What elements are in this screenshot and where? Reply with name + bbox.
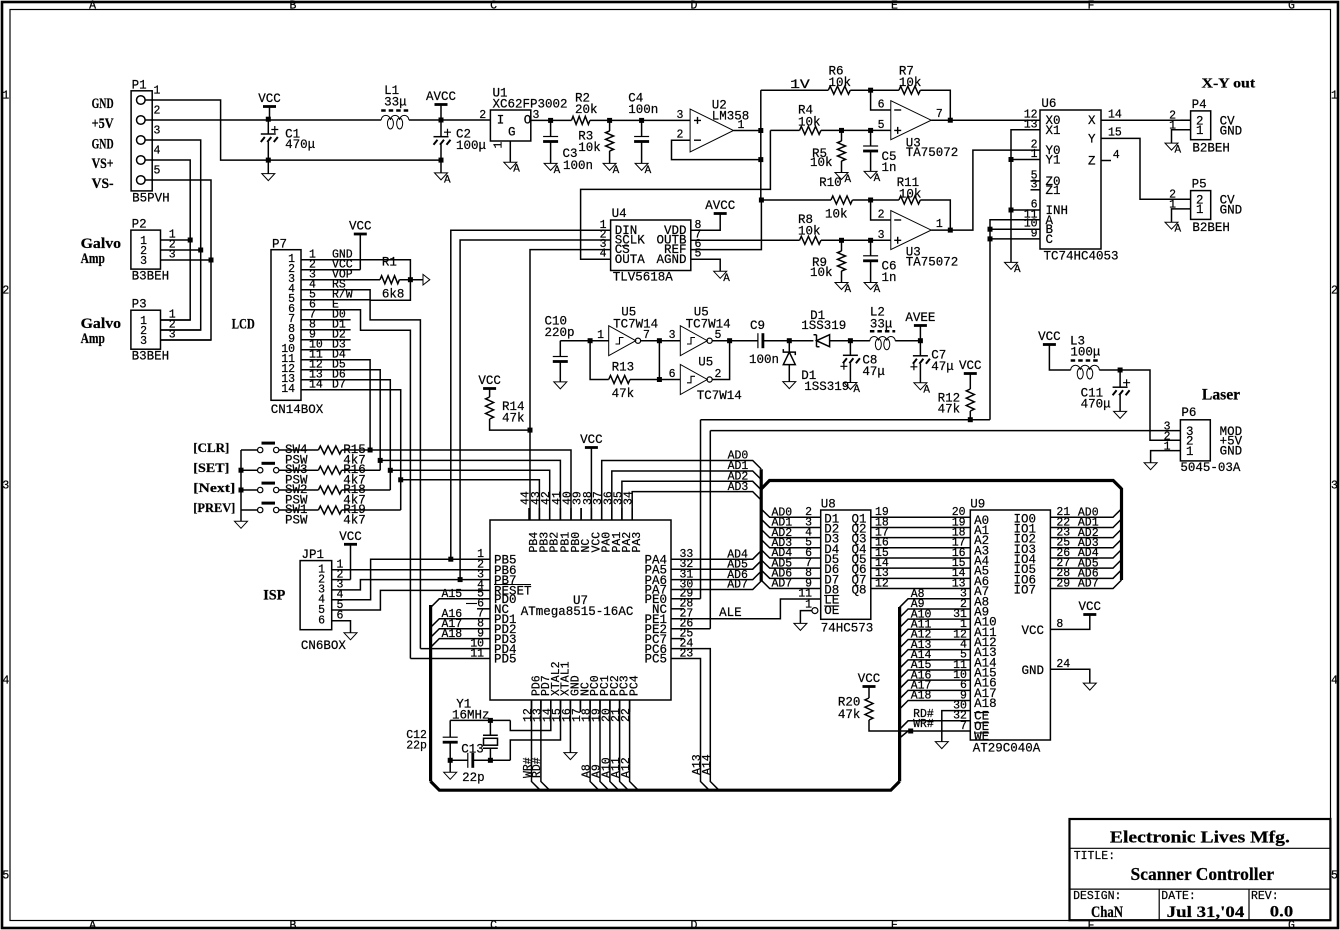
wire P2.2 bbox=[168, 249, 201, 251]
svg-text:VS+: VS+ bbox=[92, 156, 114, 172]
svg-text:JP1: JP1 bbox=[302, 548, 325, 562]
resistor R6 bbox=[828, 86, 850, 94]
U2 minus bbox=[694, 139, 701, 141]
JP1 pin5 RESET bbox=[332, 590, 490, 610]
svg-text:3: 3 bbox=[140, 335, 147, 348]
wire A13 from bus bbox=[900, 650, 971, 659]
wire gnd rail to C2 bbox=[268, 159, 441, 161]
U7 top pin 39 stub bbox=[580, 508, 582, 520]
title block box bbox=[1070, 819, 1331, 920]
capacitor C12 bbox=[443, 736, 458, 738]
resistor R8 bbox=[800, 236, 821, 244]
svg-text:47μ: 47μ bbox=[931, 360, 954, 374]
wire U4 CS col bbox=[530, 250, 611, 520]
wire VCC to R20 bbox=[868, 687, 870, 699]
svg-text:X-Y out: X-Y out bbox=[1202, 77, 1256, 92]
svg-text:1: 1 bbox=[493, 142, 506, 149]
U7 top pin 35 stub bbox=[621, 508, 623, 520]
svg-text:VCC: VCC bbox=[580, 433, 603, 447]
ground A at C6 bbox=[864, 283, 877, 290]
wire AD2 from PA bbox=[622, 481, 761, 520]
svg-text:C: C bbox=[1046, 233, 1054, 247]
svg-text:A: A bbox=[554, 165, 561, 177]
wire U4 VDD bbox=[691, 214, 720, 231]
ground at P6 bbox=[1144, 463, 1157, 470]
wire A11 from bus bbox=[900, 629, 971, 638]
junction D6/row470 bbox=[388, 468, 393, 473]
wire P6 GND bbox=[1151, 451, 1181, 463]
svg-text:1: 1 bbox=[1186, 445, 1194, 459]
junction U3t out/R7 bbox=[948, 118, 953, 123]
svg-text:3: 3 bbox=[669, 329, 676, 342]
P3 pin2 stub bbox=[161, 329, 169, 331]
connector P7 bbox=[271, 250, 301, 401]
svg-text:7: 7 bbox=[936, 108, 943, 121]
wire C7 bottom bbox=[919, 364, 921, 383]
svg-text:R13: R13 bbox=[612, 361, 635, 375]
svg-text:PD5: PD5 bbox=[494, 653, 517, 667]
U7 GND wire bbox=[569, 700, 571, 753]
diode D1 series bbox=[814, 335, 830, 347]
junction D4/R15 bbox=[368, 448, 373, 453]
ground at C12 bbox=[444, 772, 457, 779]
capacitor C8 bbox=[843, 354, 858, 356]
wire U4 OUTA to R4 bbox=[581, 130, 771, 259]
svg-text:10k: 10k bbox=[899, 188, 922, 202]
junction R3 bbox=[607, 118, 612, 123]
R18 hop bbox=[342, 489, 391, 491]
JP1 pin4 MOSI bbox=[332, 559, 490, 600]
svg-text:D: D bbox=[691, 919, 698, 930]
ground at U9 GND bbox=[1083, 683, 1096, 690]
P2 pin2 stub bbox=[161, 249, 169, 251]
junction P2.3/VS- bbox=[209, 258, 214, 263]
U6 Z stub bbox=[1101, 160, 1111, 162]
wire C3 top bbox=[550, 120, 552, 136]
U3b minus bbox=[894, 219, 901, 221]
svg-text:4: 4 bbox=[1331, 675, 1338, 688]
wire U8 Q1 to U9 A0 bbox=[871, 516, 971, 518]
title block divider v1 bbox=[1158, 889, 1160, 920]
wire select line bbox=[701, 419, 990, 421]
svg-text:C: C bbox=[490, 919, 497, 930]
svg-text:VCC: VCC bbox=[1079, 600, 1102, 614]
resistor R7 bbox=[899, 86, 920, 94]
svg-text:Amp: Amp bbox=[81, 331, 105, 347]
wire R4 to pin5 bbox=[821, 129, 891, 131]
inductor L2 bbox=[870, 330, 895, 333]
junction INH col bbox=[1009, 208, 1014, 213]
wire U6 Y to P5 bbox=[1101, 138, 1191, 199]
svg-text:A: A bbox=[1014, 264, 1021, 276]
junction xtal bottom bbox=[488, 758, 493, 763]
svg-text:6: 6 bbox=[318, 615, 325, 628]
U7 pin9 stub bbox=[477, 638, 490, 640]
junction R8/C6 bbox=[868, 238, 873, 243]
ground at C1 bbox=[262, 174, 275, 181]
svg-text:DATE:: DATE: bbox=[1161, 890, 1196, 903]
U7 PC7 stub bbox=[671, 638, 684, 640]
svg-text:B3BEH: B3BEH bbox=[132, 270, 170, 284]
wire IO2 to bus bbox=[1050, 529, 1121, 538]
wire U8 Q4 to U9 A3 bbox=[871, 547, 971, 549]
U7 bottom pin 20 stub bbox=[609, 700, 611, 712]
P1 pin 2 stub bbox=[145, 119, 158, 121]
U7 top pin 38 stub bbox=[590, 508, 592, 520]
svg-text:Y: Y bbox=[1088, 132, 1096, 146]
wire R12 bottom bbox=[969, 411, 971, 420]
inverter U5b bbox=[680, 326, 707, 356]
wire AD1 to U8 bbox=[761, 519, 821, 527]
wire U9 GND bbox=[1050, 669, 1089, 683]
wire inv3 out bbox=[712, 341, 729, 380]
capacitor C4 bbox=[634, 136, 649, 138]
wire C7 top bbox=[919, 341, 921, 356]
ground at C10 bbox=[554, 382, 567, 389]
wire U4 DIN col bbox=[451, 230, 611, 559]
wire L1 to U1 bbox=[409, 119, 491, 121]
resistor R3 bbox=[606, 131, 614, 151]
junction R4/C5 bbox=[868, 128, 873, 133]
U7 VCC pin38 bbox=[590, 448, 592, 521]
svg-text:F: F bbox=[1088, 0, 1095, 13]
U7 bottom pin 21 stub bbox=[619, 700, 621, 712]
wire R5 bottom bbox=[841, 161, 843, 173]
wire C4 top bbox=[641, 120, 643, 136]
wire C10 rail bbox=[560, 340, 608, 342]
svg-text:10k: 10k bbox=[578, 141, 601, 155]
svg-text:100n: 100n bbox=[563, 159, 593, 173]
ground A at C3 bbox=[544, 163, 557, 170]
wire inv1out to inv3in bbox=[658, 341, 660, 380]
ground A at U4 bbox=[714, 271, 727, 278]
wire C8 bottom bbox=[849, 363, 851, 382]
svg-text:CN14BOX: CN14BOX bbox=[271, 403, 324, 417]
inverter U5c bbox=[680, 365, 707, 395]
wire U8 Q7 to U9 A6 bbox=[871, 577, 971, 579]
wire A12 from bus bbox=[900, 639, 971, 648]
svg-text:GND: GND bbox=[1220, 445, 1243, 459]
ground A at R5 bbox=[835, 173, 848, 180]
U4 CS overline bbox=[622, 245, 629, 247]
JP1 VCC stem bbox=[350, 544, 352, 579]
svg-text:P5: P5 bbox=[1192, 178, 1207, 192]
capacitor C7 bbox=[913, 355, 928, 357]
resistor R13 bbox=[609, 376, 630, 384]
bus ADDR left vertical bbox=[429, 605, 432, 781]
wire U1 gnd stub bbox=[509, 141, 511, 162]
svg-text:A: A bbox=[613, 165, 620, 177]
wire select col to U6 bbox=[989, 419, 991, 421]
svg-text:VCC: VCC bbox=[959, 359, 982, 373]
svg-text:B: B bbox=[290, 0, 297, 13]
junction C1/gnd rail bbox=[266, 158, 271, 163]
P7 VCC stem bbox=[359, 234, 361, 270]
svg-text:GND: GND bbox=[92, 137, 114, 153]
wire PE0 col up bbox=[700, 420, 702, 599]
svg-text:TC74HC4053: TC74HC4053 bbox=[1044, 250, 1119, 264]
flash U9 box bbox=[970, 510, 1050, 740]
svg-text:GND: GND bbox=[1021, 664, 1044, 678]
wire U2 pin2 feedback bbox=[672, 140, 761, 159]
U7 NC28 stub bbox=[671, 608, 684, 610]
op-amp U3 top bbox=[891, 101, 931, 140]
capacitor C10 bbox=[553, 356, 568, 358]
resistor R18 bbox=[318, 486, 341, 494]
junction R6/R7/pin6 bbox=[868, 88, 873, 93]
svg-text:Z1: Z1 bbox=[1046, 184, 1061, 198]
svg-text:R1: R1 bbox=[382, 256, 397, 270]
svg-text:470μ: 470μ bbox=[285, 138, 316, 152]
wire AVCC stem bbox=[440, 105, 442, 121]
wire C2 gnd stem bbox=[440, 160, 442, 173]
junction R4/R5 bbox=[839, 128, 844, 133]
wire A16 from bus bbox=[431, 619, 477, 628]
crystal Y1 bbox=[483, 735, 498, 748]
P1 pin 4 stub bbox=[145, 159, 158, 161]
P1 pin 2 circle bbox=[137, 116, 146, 125]
wire P2.3 bbox=[168, 259, 211, 261]
resistor R20 bbox=[865, 698, 873, 720]
wire PE2 col up bbox=[709, 431, 711, 629]
junction C2/gnd rail bbox=[439, 158, 444, 163]
svg-text:E: E bbox=[891, 919, 898, 930]
junction R14/CS bbox=[528, 428, 533, 433]
junction C3 bbox=[548, 118, 553, 123]
svg-text:A12: A12 bbox=[620, 757, 633, 778]
svg-text:3: 3 bbox=[140, 255, 147, 268]
svg-text:B: B bbox=[290, 919, 297, 930]
svg-text:GND: GND bbox=[1220, 203, 1243, 217]
U7 bottom pin 15 stub bbox=[560, 700, 562, 712]
svg-text:GND: GND bbox=[1220, 124, 1243, 138]
svg-text:+5V: +5V bbox=[92, 116, 114, 132]
C12 bottom bbox=[449, 742, 451, 760]
svg-text:0.0: 0.0 bbox=[1270, 904, 1294, 921]
capacitor C9 bbox=[757, 333, 759, 348]
bus AD right vertical bbox=[1120, 488, 1123, 580]
wire C3 to R2 bbox=[551, 119, 572, 121]
svg-text:4k7: 4k7 bbox=[343, 513, 366, 527]
wire U3b out bbox=[931, 150, 1040, 230]
connector P3 bbox=[131, 310, 161, 349]
bus ADDR bottom bbox=[431, 781, 900, 790]
wire R6 to R7 bbox=[850, 89, 899, 91]
junction D5/row460 bbox=[378, 458, 383, 463]
P4 pin1 gnd wire bbox=[1172, 130, 1191, 143]
junction SCLK/PB7 bbox=[458, 577, 463, 582]
P7 RS wire bbox=[301, 290, 420, 649]
U7 bottom pin 16 stub bbox=[569, 700, 571, 712]
wire C10 top bbox=[559, 341, 561, 357]
P5 pin1 gnd wire bbox=[1172, 209, 1191, 222]
svg-text:E: E bbox=[891, 0, 898, 13]
wire AD7 to U8 bbox=[761, 580, 821, 588]
svg-text:AGND: AGND bbox=[656, 253, 686, 267]
wire C9 to D1 bbox=[763, 340, 813, 342]
ground at zener D1 bbox=[783, 382, 796, 389]
svg-text:A: A bbox=[513, 164, 520, 176]
svg-text:WR#: WR# bbox=[913, 718, 934, 731]
wire A18 from bus bbox=[431, 639, 477, 648]
wire U3b pin2 bbox=[871, 200, 891, 220]
resistor R19 bbox=[318, 506, 341, 514]
wire IO3 to bus bbox=[1050, 539, 1121, 548]
wire SW1 left bbox=[241, 509, 258, 511]
U9 WE overline bbox=[974, 732, 989, 734]
wire R3 bottom bbox=[609, 151, 611, 163]
capacitor C3 bbox=[543, 136, 558, 138]
ground A at R9 bbox=[835, 283, 848, 290]
U7 XTAL2 wire bbox=[510, 700, 551, 731]
inductor L3 bbox=[1071, 359, 1100, 362]
bus ADDR right vertical bbox=[898, 607, 901, 781]
latch U8 box bbox=[821, 510, 871, 619]
svg-text:REV:: REV: bbox=[1251, 890, 1279, 903]
svg-text:A14: A14 bbox=[701, 754, 714, 775]
wire P1.1 GND to gnd rail bbox=[158, 100, 268, 160]
svg-text:34: 34 bbox=[623, 491, 636, 505]
P7 VOP wire bbox=[301, 279, 380, 281]
wire C8 top bbox=[849, 341, 851, 356]
wire P1.3 to P2/P3 col bbox=[158, 140, 201, 330]
connector P6 bbox=[1180, 420, 1210, 461]
svg-text:5: 5 bbox=[2, 870, 9, 883]
U6 Z1 stub bbox=[1031, 189, 1041, 191]
svg-text:1SS319: 1SS319 bbox=[804, 380, 849, 394]
arrow marker VOP bbox=[423, 274, 430, 285]
capacitor C13 bbox=[467, 753, 469, 768]
P7 E wire bbox=[301, 310, 410, 659]
wire AD3 to U8 bbox=[761, 540, 821, 548]
U7 PC5 A13 wire bbox=[671, 659, 709, 791]
ground at U8 OE bbox=[794, 623, 807, 630]
P7 D0 stub bbox=[301, 319, 351, 321]
svg-text:TA75072: TA75072 bbox=[906, 146, 959, 160]
U7 PC6 A14 wire bbox=[671, 649, 719, 791]
svg-text:LCD: LCD bbox=[232, 317, 255, 333]
svg-text:4: 4 bbox=[2, 675, 9, 688]
svg-text:5: 5 bbox=[154, 165, 161, 178]
wire D1 to L2 bbox=[830, 340, 870, 342]
svg-text:VCC: VCC bbox=[1038, 330, 1061, 344]
wire U2 out bbox=[734, 130, 761, 132]
wire A17 from bus bbox=[431, 629, 477, 638]
svg-text:1: 1 bbox=[1196, 203, 1204, 217]
wire U3t pin6 bbox=[871, 90, 891, 110]
svg-text:33μ: 33μ bbox=[870, 317, 893, 331]
ground A at U1 bbox=[504, 162, 517, 169]
junction C4 bbox=[639, 118, 644, 123]
svg-text:4: 4 bbox=[154, 145, 161, 158]
resistor R9 bbox=[838, 251, 846, 271]
U7 top pin 41 stub bbox=[559, 508, 561, 520]
ground A at R3 bbox=[603, 163, 616, 170]
wire C1 gnd stem bbox=[267, 160, 269, 174]
svg-text:Galvo: Galvo bbox=[81, 236, 122, 252]
U7 A10 col bbox=[610, 700, 619, 790]
wire P1.4 to P2/P3 col bbox=[158, 160, 190, 320]
capacitor C2 bbox=[434, 136, 449, 138]
svg-text:G: G bbox=[508, 126, 516, 140]
wire A8 from bus bbox=[900, 599, 971, 608]
wire C3 bottom bbox=[550, 142, 552, 164]
svg-text:C13: C13 bbox=[461, 743, 484, 757]
U7 bottom pin 22 stub bbox=[629, 700, 631, 712]
svg-text:74HC573: 74HC573 bbox=[821, 622, 874, 636]
wire U4 REF bbox=[691, 200, 762, 250]
wire VCC stem bbox=[269, 107, 271, 121]
wire A17 from bus bbox=[900, 690, 971, 699]
U7 top pin 43 stub bbox=[538, 508, 540, 520]
svg-text:VS-: VS- bbox=[92, 176, 114, 192]
U6 Y1 stub bbox=[1011, 159, 1040, 161]
svg-text:TLV5618A: TLV5618A bbox=[613, 271, 674, 285]
svg-text:[CLR]: [CLR] bbox=[193, 440, 229, 455]
wire IO1 to bus bbox=[1050, 519, 1121, 528]
junction R8/R9 bbox=[839, 238, 844, 243]
wire inv1 out bbox=[641, 340, 681, 342]
svg-text:ChaN: ChaN bbox=[1091, 904, 1123, 921]
inductor L1 bbox=[381, 109, 409, 112]
P2 pin1 stub bbox=[161, 239, 169, 241]
svg-text:U4: U4 bbox=[612, 207, 627, 221]
switch SW2 bbox=[258, 487, 263, 492]
U7 bottom pin 14 stub bbox=[550, 700, 552, 712]
svg-text:Laser: Laser bbox=[1202, 386, 1240, 403]
svg-text:220p: 220p bbox=[545, 326, 575, 340]
U7 PE0 wire bbox=[671, 598, 701, 600]
svg-text:14: 14 bbox=[281, 383, 295, 396]
wire U8 Q2 to U9 A1 bbox=[871, 526, 971, 528]
ground at U9 CE bbox=[935, 742, 948, 749]
U9 OE overline bbox=[974, 722, 989, 724]
svg-text:TC7W14: TC7W14 bbox=[697, 389, 742, 403]
C13 right bbox=[473, 759, 510, 761]
svg-text:XC62FP3002: XC62FP3002 bbox=[493, 98, 568, 112]
junction C col bbox=[988, 236, 993, 241]
ground A at U6 bbox=[1005, 262, 1018, 269]
wire AD4 to bus bbox=[671, 551, 761, 560]
wire U3t out bbox=[931, 119, 1040, 121]
svg-text:20k: 20k bbox=[575, 103, 598, 117]
wire U9 VCC bbox=[1050, 615, 1089, 630]
svg-text:PC5: PC5 bbox=[644, 653, 667, 667]
svg-text:1: 1 bbox=[936, 218, 943, 231]
svg-text:VCC: VCC bbox=[1021, 624, 1044, 638]
U7 bottom pin 13 stub bbox=[540, 700, 542, 712]
wire U4 SCLK col bbox=[460, 240, 610, 580]
svg-text:U9: U9 bbox=[970, 498, 985, 512]
bus AD top bbox=[761, 481, 1121, 490]
wire AD5 to U8 bbox=[761, 560, 821, 568]
title block divider 2 bbox=[1070, 888, 1331, 890]
zener D1 shunt bbox=[783, 341, 795, 382]
row460 to PB1 bbox=[380, 460, 560, 520]
junction U2 out bbox=[758, 128, 763, 133]
wire C1 top bbox=[267, 120, 269, 134]
svg-text:A: A bbox=[1175, 224, 1182, 236]
junction X1/Y1 col bbox=[1009, 157, 1014, 162]
svg-text:AVEE: AVEE bbox=[905, 311, 935, 325]
gnd node to C13 bbox=[450, 759, 468, 761]
svg-text:X: X bbox=[1088, 114, 1096, 128]
wire R3 to C4 bbox=[610, 119, 642, 121]
svg-text:TA75072: TA75072 bbox=[906, 256, 959, 270]
wire IO4 to bus bbox=[1050, 549, 1121, 558]
svg-text:Q8: Q8 bbox=[851, 583, 866, 597]
wire P1.5 to P2/P3 col bbox=[158, 180, 211, 340]
